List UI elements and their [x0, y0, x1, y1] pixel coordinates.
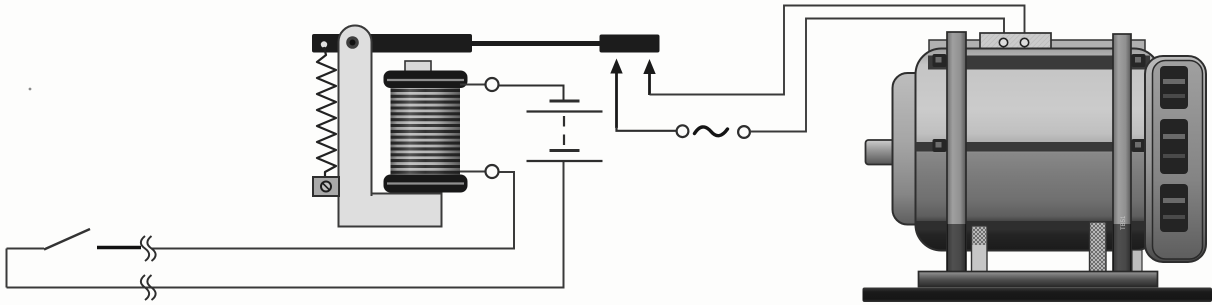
AC source circle 1	[677, 125, 689, 137]
switch S1 contact thick segment	[97, 246, 141, 249]
bolt strap2 mid	[1132, 139, 1146, 152]
terminal hole 1	[999, 38, 1007, 46]
switch S1 lever	[44, 229, 90, 250]
motor M1	[863, 32, 1212, 302]
left contact arrow	[615, 70, 618, 128]
coil body ribs	[391, 80, 461, 183]
terminal block	[980, 33, 1051, 53]
relay yoke bracket	[339, 26, 442, 227]
relay lever arm	[339, 26, 372, 197]
body mid stripe	[916, 142, 1160, 152]
shaft	[866, 140, 899, 165]
motor main body	[916, 49, 1161, 251]
spring hook hole	[321, 41, 327, 47]
battery plate long 2	[527, 160, 603, 162]
svg-text:TB51: TB51	[1121, 215, 1127, 230]
coil cylindrical shading	[391, 80, 461, 183]
body top stripe	[928, 56, 1150, 70]
wire W2 bottom (battery return)	[7, 162, 564, 288]
strap 2	[1113, 34, 1131, 272]
bolt strap1 mid	[933, 139, 947, 152]
battery B1 input wire	[499, 86, 564, 101]
battery plate short 1	[550, 100, 580, 103]
bolt strap1 top	[933, 54, 947, 67]
wire bottom loop left vertical	[6, 249, 8, 288]
spring anchor block	[313, 177, 339, 196]
coil top terminal	[486, 78, 499, 91]
coil top terminal wire	[460, 84, 485, 86]
coil bottom terminal	[486, 165, 499, 178]
armature thick wire to contact	[468, 41, 602, 46]
cable break marks on W2	[141, 275, 156, 300]
coil bottom terminal wire	[460, 171, 485, 173]
wire W1 right segment	[152, 172, 514, 249]
right hatched leg	[1090, 222, 1107, 273]
coil bottom flange	[384, 175, 468, 193]
vent slot 3	[1160, 184, 1188, 232]
motor top bar	[929, 40, 1145, 54]
ink speck	[29, 88, 32, 91]
right contact arrow	[648, 70, 651, 95]
contact block (black)	[600, 35, 660, 53]
spring	[317, 47, 336, 178]
armature bar (black)	[312, 34, 472, 53]
AC source circle 2	[738, 126, 750, 138]
battery plate long 1	[527, 110, 603, 112]
AC tilde	[695, 127, 728, 136]
wire W1 switch to coil terminal	[7, 248, 45, 250]
anchor screw	[321, 182, 331, 192]
strap 1	[947, 32, 966, 272]
battery plate short 2	[550, 149, 580, 152]
coil core top	[405, 61, 431, 72]
vent slot 1	[1160, 66, 1188, 109]
base plate	[919, 272, 1158, 287]
floor bar	[863, 288, 1212, 303]
right small light leg	[1132, 250, 1142, 273]
body lower stripe	[916, 221, 1160, 229]
terminal hole 2	[1020, 38, 1028, 46]
coil top flange	[384, 71, 468, 89]
left end cap	[893, 73, 945, 225]
vent panel	[1153, 61, 1203, 260]
cable break marks on W1	[141, 236, 156, 261]
left light leg (hatched top)	[972, 226, 988, 272]
wire right arrow to motor terminal (outer)	[650, 6, 1025, 95]
bolt strap2 top	[1132, 54, 1146, 67]
right end cap	[1145, 56, 1206, 262]
pivot	[346, 36, 359, 49]
wire AC to motor terminal (inner)	[750, 19, 1004, 132]
vent slot 2	[1160, 119, 1188, 174]
battery dashed center	[563, 116, 565, 148]
wire left arrow to AC source	[617, 127, 677, 131]
